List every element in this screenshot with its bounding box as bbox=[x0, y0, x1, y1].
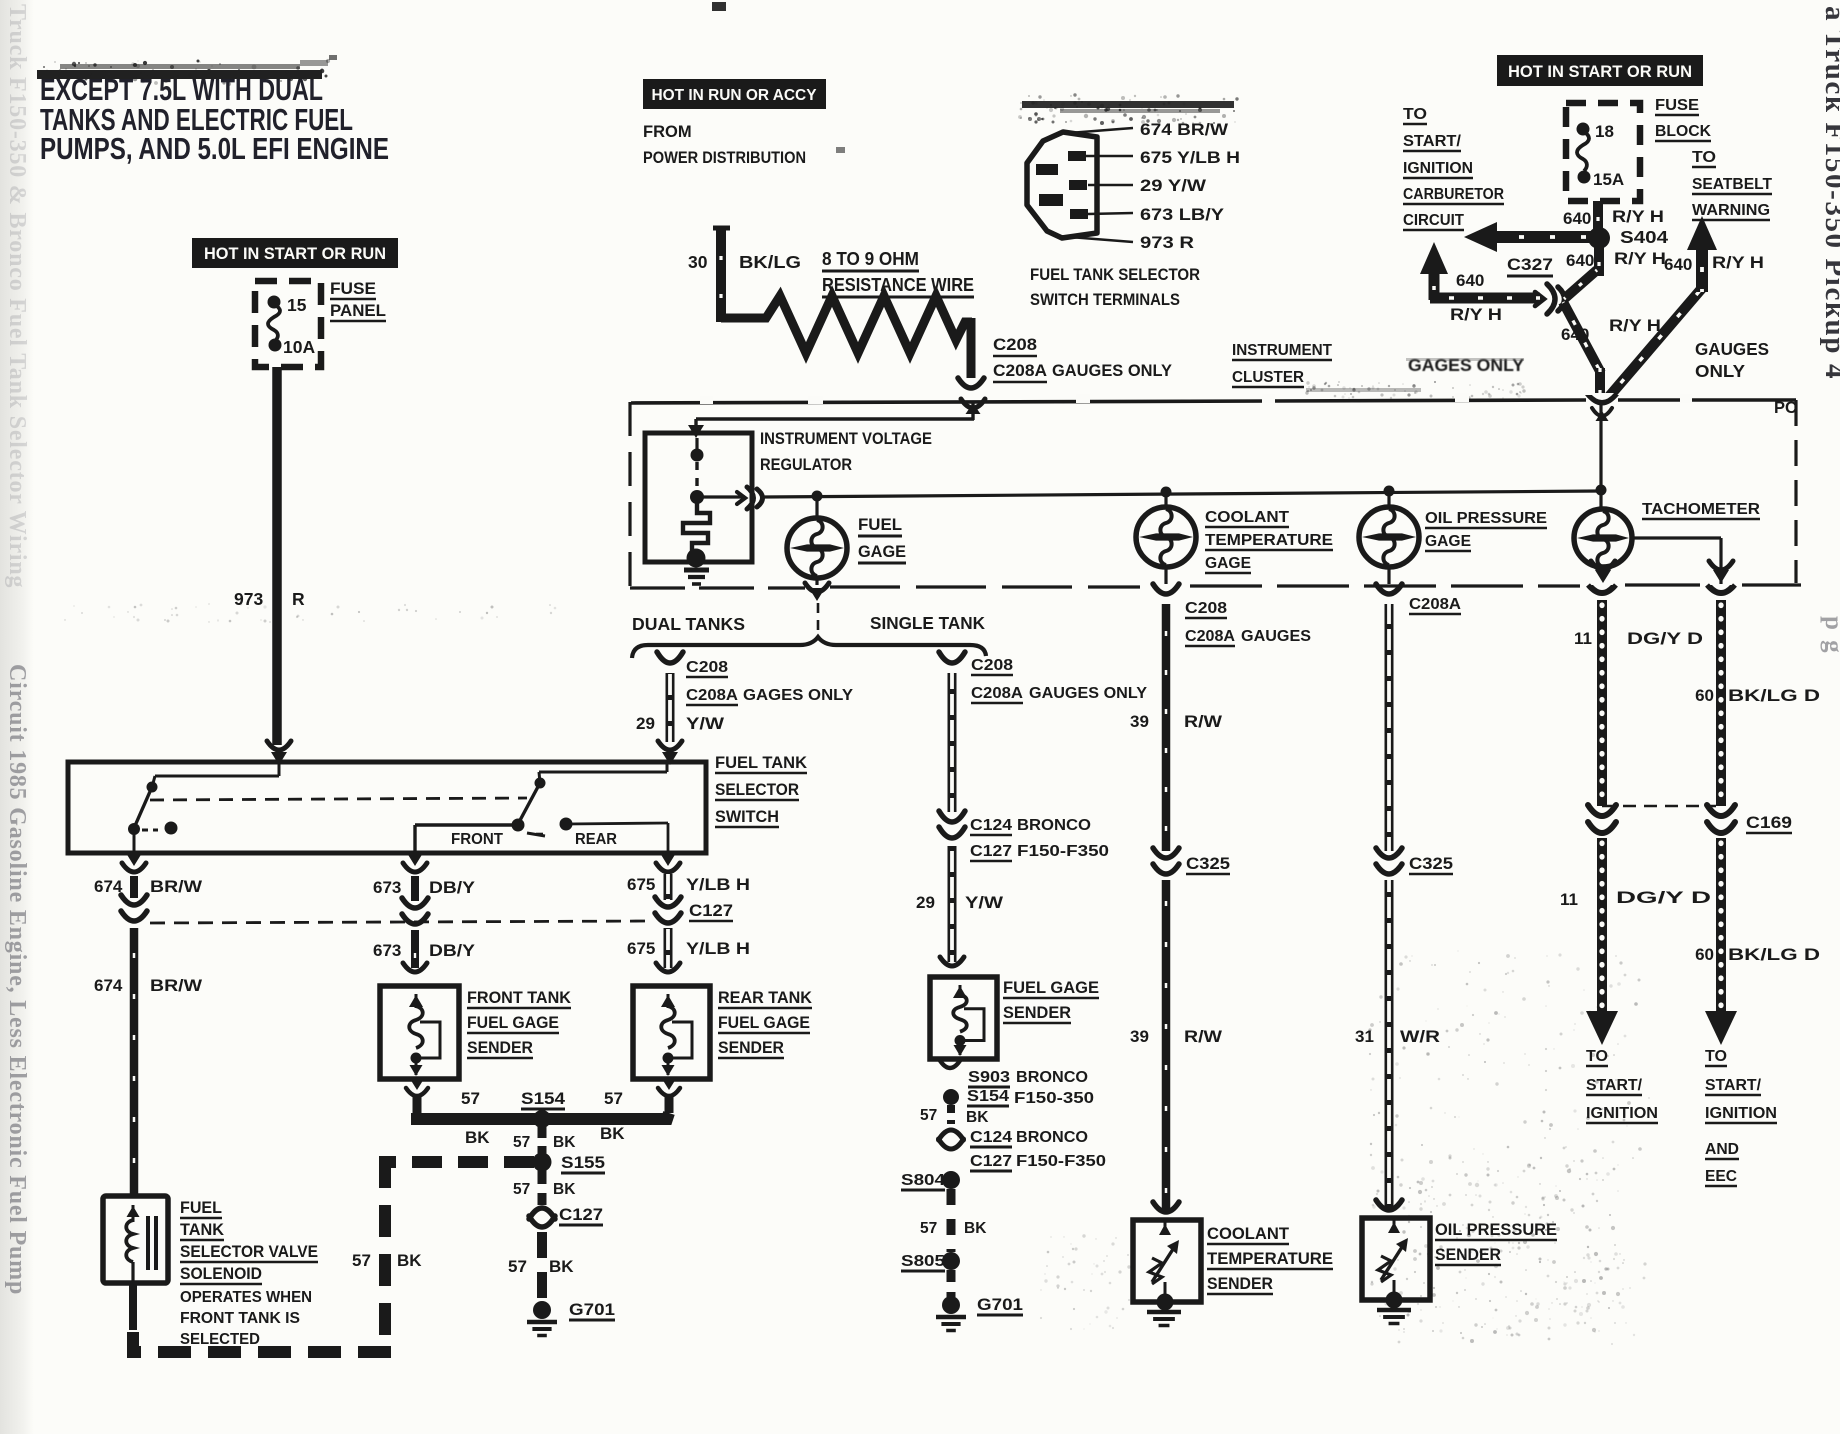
tachometer (circle symbol) bbox=[1574, 509, 1632, 567]
label SINGLE TANK bbox=[870, 613, 985, 633]
wire label 640 R/Y H (above cluster) bbox=[1561, 316, 1661, 344]
wire 11 DG/Y D upper bbox=[1597, 600, 1607, 806]
svg-text:R/W: R/W bbox=[1184, 1027, 1223, 1046]
splice S154 (single) bbox=[943, 1089, 959, 1105]
wire 29 Y/W lower (single tank) bbox=[948, 846, 957, 962]
svg-text:S404: S404 bbox=[1620, 227, 1668, 247]
arrow down from fuel gage at cluster edge bbox=[805, 583, 829, 601]
svg-text:C208A: C208A bbox=[993, 362, 1047, 380]
connector C127 chevrons on 675 column bbox=[655, 897, 681, 923]
label COOLANT TEMPERATURE GAGE bbox=[1205, 509, 1333, 573]
terminal lead line 673 LB/Y bbox=[1088, 206, 1224, 224]
svg-text:C127: C127 bbox=[970, 843, 1012, 860]
wire label 675 Y/LB H (upper) bbox=[627, 875, 750, 894]
arrow to start/ignition and EEC (60 column) bbox=[1705, 1011, 1737, 1045]
arrow left from S404 (to start/ignition carburetor circuit) bbox=[1464, 222, 1592, 252]
instrument cluster box bottom edge bbox=[630, 585, 1801, 588]
connector chevrons on 674 column bbox=[121, 895, 147, 921]
chevron C208 (single tank column) bbox=[939, 652, 965, 663]
svg-text:EEC: EEC bbox=[1705, 1168, 1737, 1185]
switch pole 2 feed wire bbox=[539, 762, 667, 772]
fuse block dashed box bbox=[1566, 103, 1640, 201]
wire label 29 Y/W lower (single) bbox=[916, 893, 1004, 912]
fuse F15/10A in fuse panel bbox=[268, 296, 282, 352]
svg-text:640: 640 bbox=[1664, 255, 1692, 274]
svg-text:R: R bbox=[292, 589, 305, 609]
label GAGES ONLY (smudged) bbox=[1406, 355, 1524, 375]
fork brace under tanks labels bbox=[632, 637, 986, 658]
svg-text:S805: S805 bbox=[901, 1253, 945, 1270]
wire label 674 BR/W (lower) bbox=[94, 976, 203, 995]
svg-text:C327: C327 bbox=[1507, 255, 1553, 274]
svg-text:15A: 15A bbox=[1593, 170, 1624, 189]
coolant sender ground bbox=[1147, 1312, 1181, 1326]
switch pole 1 pivot bbox=[147, 776, 158, 793]
svg-text:SOLENOID: SOLENOID bbox=[180, 1265, 262, 1283]
svg-text:57: 57 bbox=[604, 1089, 623, 1108]
dashed link between dotted columns bbox=[1602, 805, 1716, 808]
svg-text:57: 57 bbox=[508, 1257, 527, 1276]
svg-text:SELECTOR: SELECTOR bbox=[715, 781, 799, 799]
oil pressure gage (circle symbol) bbox=[1359, 507, 1419, 567]
right margin rotated caption text bbox=[1819, 6, 1840, 655]
svg-text:674 BR/W: 674 BR/W bbox=[1140, 121, 1228, 139]
svg-text:SENDER: SENDER bbox=[718, 1039, 784, 1057]
svg-text:S804: S804 bbox=[901, 1172, 945, 1189]
wire label 30 BK/LG bbox=[688, 252, 801, 272]
wire label 31 W/R bbox=[1355, 1027, 1440, 1046]
label INSTRUMENT VOLTAGE REGULATOR bbox=[760, 430, 932, 474]
svg-text:IGNITION: IGNITION bbox=[1705, 1105, 1777, 1122]
svg-text:FUEL GAGE: FUEL GAGE bbox=[467, 1014, 559, 1032]
svg-text:OIL PRESSURE: OIL PRESSURE bbox=[1425, 510, 1547, 527]
wire label 640 / R/Y H (left arrow) bbox=[1450, 271, 1502, 324]
fuse pin label 18 bbox=[1595, 122, 1614, 141]
switch output arrow 674 bbox=[122, 853, 146, 872]
chevron below cluster at oil column bbox=[1376, 584, 1402, 594]
switch pole 1 feed wire bbox=[155, 762, 279, 776]
label C124 BRONCO / C127 F150-F350 bbox=[970, 817, 1109, 861]
svg-text:BK: BK bbox=[553, 1134, 576, 1151]
wire label 57 BK (S155-C127) bbox=[513, 1181, 576, 1198]
fuel tank selector switch box bbox=[68, 762, 706, 853]
fuse pin label 15A bbox=[1593, 170, 1624, 189]
front tank fuel gage sender bbox=[380, 986, 459, 1079]
label COOLANT TEMPERATURE SENDER bbox=[1207, 1225, 1333, 1294]
svg-text:SEATBELT: SEATBELT bbox=[1692, 176, 1773, 193]
header box HOT IN START OR RUN (left) bbox=[192, 238, 398, 268]
svg-text:BK: BK bbox=[549, 1257, 574, 1276]
label C208 / C208A GAUGES ONLY (single) bbox=[971, 657, 1147, 703]
label TO START/IGNITION AND EEC bbox=[1705, 1048, 1777, 1186]
svg-text:HOT IN RUN OR ACCY: HOT IN RUN OR ACCY bbox=[652, 87, 817, 104]
svg-text:39: 39 bbox=[1130, 1027, 1149, 1046]
wire label 11 DG/Y D (lower) bbox=[1560, 888, 1711, 909]
wire label 11 DG/Y D (upper) bbox=[1574, 629, 1703, 648]
wire label 57 BK (below S154 single) bbox=[920, 1107, 989, 1126]
switch pole 1 blade bbox=[134, 787, 152, 828]
svg-text:57: 57 bbox=[461, 1089, 480, 1108]
svg-text:PC: PC bbox=[1774, 399, 1797, 417]
resistor: 8-9 ohm resistance wire zigzag bbox=[721, 296, 972, 378]
label C208 / C208A GAUGES (coolant column) bbox=[1185, 600, 1311, 646]
wire label 640 R/Y H (right arrow) bbox=[1664, 253, 1764, 274]
arrow into front tank sender bbox=[403, 963, 427, 972]
connector C325 (coolant) bbox=[1153, 848, 1179, 874]
svg-text:31: 31 bbox=[1355, 1027, 1374, 1046]
wire label 60 BK/LG D (upper) bbox=[1695, 686, 1820, 705]
svg-text:OIL PRESSURE: OIL PRESSURE bbox=[1435, 1221, 1557, 1239]
label FUSE PANEL bbox=[330, 279, 386, 321]
splice S804 bbox=[942, 1171, 960, 1189]
svg-text:30: 30 bbox=[688, 252, 708, 272]
connector chevrons on 11 column bbox=[1588, 805, 1616, 833]
splice S154 (dual) bbox=[533, 1110, 551, 1128]
svg-text:674: 674 bbox=[94, 877, 123, 896]
wire 11 DG/Y D lower bbox=[1597, 838, 1607, 1012]
svg-text:REAR TANK: REAR TANK bbox=[718, 989, 812, 1007]
gauge feed bus wire bbox=[697, 491, 1601, 497]
label G701 (dual) bbox=[569, 1300, 615, 1320]
wire 57 BK S154 to S155 bbox=[538, 1126, 547, 1155]
svg-text:BK: BK bbox=[397, 1251, 422, 1270]
svg-text:C208A: C208A bbox=[971, 685, 1023, 702]
ground G701 (single) bbox=[936, 1296, 966, 1331]
svg-text:BR/W: BR/W bbox=[150, 976, 203, 995]
connector C325 (oil) bbox=[1376, 848, 1402, 874]
label REAR bbox=[575, 831, 617, 848]
label TO START/IGNITION CARBURETOR CIRCUIT bbox=[1403, 106, 1504, 230]
wire 57 BK S155 to C127 bbox=[538, 1170, 547, 1205]
svg-text:673: 673 bbox=[373, 878, 401, 897]
svg-text:C208A: C208A bbox=[1185, 628, 1235, 645]
svg-text:ONLY: ONLY bbox=[1695, 361, 1745, 381]
wire label 29 Y/W (dual) bbox=[636, 714, 725, 733]
fuse pin label 10A bbox=[283, 337, 315, 357]
svg-text:Y/W: Y/W bbox=[965, 893, 1004, 912]
wire 673 stub bbox=[411, 876, 419, 901]
svg-text:675: 675 bbox=[627, 875, 655, 894]
wire label 57 BK (above G701) bbox=[508, 1257, 574, 1276]
header box HOT IN RUN OR ACCY bbox=[643, 79, 826, 109]
svg-text:C208: C208 bbox=[1185, 600, 1227, 617]
wire label 39 R/W (upper) bbox=[1130, 712, 1223, 731]
svg-text:Circuit 1985 Gasoline Engine,: Circuit 1985 Gasoline Engine, Less Elect… bbox=[4, 664, 30, 1295]
wire 57 BK S805 to G701 bbox=[947, 1270, 956, 1297]
svg-text:GAGES ONLY: GAGES ONLY bbox=[743, 687, 853, 704]
connector at IVR output bbox=[737, 487, 763, 509]
label S154 F150-350 bbox=[967, 1088, 1094, 1107]
svg-text:TO: TO bbox=[1692, 149, 1716, 166]
svg-text:10A: 10A bbox=[283, 337, 315, 357]
label TO SEATBELT WARNING bbox=[1692, 149, 1773, 220]
svg-text:REGULATOR: REGULATOR bbox=[760, 456, 852, 474]
svg-text:Y/LB H: Y/LB H bbox=[686, 939, 750, 958]
arrow up 640 R/Y H (to seatbelt warning) bbox=[1687, 216, 1717, 292]
wire label 640 R/Y H (below fuse block) bbox=[1563, 207, 1664, 228]
svg-text:SINGLE TANK: SINGLE TANK bbox=[870, 613, 985, 633]
label FUSE BLOCK bbox=[1655, 97, 1711, 141]
svg-text:BK: BK bbox=[966, 1109, 989, 1126]
tachometer feed wire bbox=[1599, 400, 1602, 509]
svg-text:S155: S155 bbox=[561, 1153, 605, 1172]
wire label 640 R/Y H (below S404) bbox=[1566, 249, 1666, 270]
switch pole 1 rear contact (open) bbox=[142, 822, 178, 835]
svg-text:INSTRUMENT: INSTRUMENT bbox=[1232, 342, 1333, 359]
wire 673 DB/Y to front sender bbox=[411, 930, 419, 968]
wire 640 C327 down to cluster junction bbox=[1563, 302, 1601, 396]
svg-text:GAUGES: GAUGES bbox=[1695, 339, 1769, 359]
svg-text:BRONCO: BRONCO bbox=[1016, 1129, 1088, 1146]
svg-text:a Truck F150-350 Pickup 4: a Truck F150-350 Pickup 4 bbox=[1819, 6, 1840, 380]
label G701 (single) bbox=[977, 1296, 1023, 1315]
fuel gage wire from bus bbox=[815, 497, 818, 519]
coolant gage output wire bbox=[1164, 567, 1167, 584]
connector C169 chevrons bbox=[1707, 805, 1735, 833]
svg-text:TACHOMETER: TACHOMETER bbox=[1642, 501, 1760, 518]
svg-text:57: 57 bbox=[513, 1134, 530, 1151]
wire label 57 BK (solenoid loop) bbox=[352, 1251, 422, 1270]
svg-text:640: 640 bbox=[1561, 325, 1589, 344]
svg-text:C208A: C208A bbox=[686, 687, 738, 704]
scan noise: streak above connector drawing bbox=[1018, 93, 1239, 125]
svg-text:FUEL GAGE: FUEL GAGE bbox=[1003, 979, 1099, 997]
svg-text:FRONT TANK: FRONT TANK bbox=[467, 989, 571, 1007]
svg-text:973: 973 bbox=[234, 589, 263, 609]
svg-text:673 LB/Y: 673 LB/Y bbox=[1140, 206, 1224, 224]
svg-text:F150-F350: F150-F350 bbox=[1016, 1153, 1106, 1170]
rear tank fuel gage sender bbox=[633, 986, 710, 1079]
inner wire resistance feed to voltage regulator bbox=[696, 403, 974, 420]
svg-text:R/Y H: R/Y H bbox=[1614, 249, 1666, 268]
svg-text:FUEL GAGE: FUEL GAGE bbox=[718, 1014, 810, 1032]
solenoid bottom wire bbox=[129, 1283, 137, 1330]
connector drawing: fuel tank selector switch terminals bbox=[1027, 132, 1097, 238]
wire 57 BK S804 to S805 bbox=[947, 1189, 956, 1252]
label FROM POWER DISTRIBUTION bbox=[643, 123, 806, 167]
svg-text:FRONT TANK IS: FRONT TANK IS bbox=[180, 1310, 300, 1327]
arrow into selector switch (dual column) bbox=[658, 741, 682, 765]
svg-text:REAR: REAR bbox=[575, 831, 617, 848]
label FRONT bbox=[451, 831, 504, 848]
svg-text:DG/Y D: DG/Y D bbox=[1627, 629, 1703, 648]
svg-text:C169: C169 bbox=[1746, 814, 1792, 832]
svg-text:29 Y/W: 29 Y/W bbox=[1140, 177, 1207, 195]
svg-text:BK: BK bbox=[964, 1220, 987, 1237]
arrow down at cluster edge (tach to C169 column) bbox=[1709, 561, 1733, 583]
ground G701 (dual) bbox=[527, 1301, 557, 1336]
arrow into coolant sender bbox=[1153, 1202, 1179, 1212]
label C127 F150-F350 (ground) bbox=[970, 1153, 1106, 1171]
svg-text:57: 57 bbox=[513, 1181, 530, 1198]
connector C124/C127 (single tank) bbox=[939, 811, 965, 838]
svg-text:C127: C127 bbox=[689, 902, 733, 920]
fuel gage sender (single tank) bbox=[930, 977, 997, 1059]
tachometer bottom wire bbox=[1601, 565, 1604, 578]
switch mechanical link dashed bbox=[150, 798, 527, 800]
svg-text:DG/Y D: DG/Y D bbox=[1616, 888, 1711, 907]
IVR ground bbox=[684, 570, 709, 584]
svg-text:673: 673 bbox=[373, 941, 401, 960]
svg-text:R/Y H: R/Y H bbox=[1450, 305, 1502, 324]
svg-text:SENDER: SENDER bbox=[1435, 1246, 1501, 1264]
instrument cluster box top edge bbox=[631, 393, 1796, 404]
arrow up 640 R/Y H (to start/ignition left) bbox=[1420, 242, 1540, 300]
svg-text:AND: AND bbox=[1705, 1141, 1739, 1158]
label FUEL TANK SELECTOR SWITCH TERMINALS bbox=[1030, 266, 1200, 309]
svg-text:57: 57 bbox=[352, 1251, 371, 1270]
scan noise: streak near GAGES ONLY bbox=[1305, 381, 1525, 400]
bus junction dot at tachometer bbox=[1596, 485, 1607, 496]
svg-text:C208A: C208A bbox=[1409, 596, 1461, 613]
IVR internal wire and contacts bbox=[690, 438, 704, 504]
svg-text:HOT IN START OR RUN: HOT IN START OR RUN bbox=[1508, 63, 1692, 81]
rear sender output arrow bbox=[658, 1078, 680, 1096]
svg-text:FUEL: FUEL bbox=[858, 515, 902, 534]
svg-text:GAUGES: GAUGES bbox=[1241, 628, 1311, 645]
label C127 (675 column) bbox=[689, 902, 733, 921]
svg-text:GAGE: GAGE bbox=[1205, 555, 1251, 572]
svg-text:PANEL: PANEL bbox=[330, 301, 386, 320]
wire 640 diagonal up-right to seatbelt warning bbox=[1607, 287, 1703, 399]
svg-text:SENDER: SENDER bbox=[1207, 1275, 1273, 1293]
svg-text:C208: C208 bbox=[686, 659, 728, 676]
title text EXCEPT 7.5L... bbox=[40, 72, 389, 166]
label C327 bbox=[1507, 255, 1553, 276]
scan tick top edge 1 bbox=[712, 2, 726, 11]
switch pole 2 blade tip gap bbox=[527, 833, 547, 836]
wire 640 R/Y H below S404 bbox=[1594, 246, 1604, 276]
switch output arrow 673 bbox=[403, 853, 427, 872]
chevron C208 (dual tanks column) bbox=[657, 652, 683, 663]
junction cup into instrument cluster (640 feed) bbox=[1585, 393, 1619, 421]
svg-text:CLUSTER: CLUSTER bbox=[1232, 369, 1304, 386]
connector C124/C127 (single ground) bbox=[939, 1130, 964, 1149]
svg-text:C124: C124 bbox=[970, 817, 1012, 834]
solenoid internals bbox=[126, 1205, 156, 1285]
svg-text:PUMPS, AND 5.0L EFI ENGINE: PUMPS, AND 5.0L EFI ENGINE bbox=[40, 131, 389, 166]
svg-text:SENDER: SENDER bbox=[1003, 1004, 1071, 1022]
label TACHOMETER bbox=[1642, 501, 1760, 519]
svg-text:S154: S154 bbox=[967, 1088, 1009, 1105]
terminal lead line 973 R bbox=[1057, 234, 1194, 252]
wire label 57 BK (S154-S155) bbox=[513, 1134, 576, 1151]
wire label 674 BR/W (upper) bbox=[94, 877, 203, 896]
instrument cluster box right edge bbox=[1794, 400, 1797, 583]
svg-text:R/Y H: R/Y H bbox=[1612, 207, 1664, 226]
terminal lead line 29 Y/W bbox=[1088, 177, 1207, 195]
label C169 bbox=[1746, 814, 1792, 833]
svg-text:60: 60 bbox=[1695, 945, 1714, 964]
label INSTRUMENT CLUSTER bbox=[1232, 342, 1333, 387]
wire 973 R from fuse panel to selector switch bbox=[272, 367, 282, 745]
wire 39 R/W lower (coolant) bbox=[1162, 880, 1171, 1212]
splice S404 bbox=[1588, 227, 1610, 249]
header box HOT IN START OR RUN (right) bbox=[1497, 55, 1703, 86]
arrow into rear tank sender bbox=[656, 963, 680, 972]
fuel tank selector valve solenoid box bbox=[103, 1196, 168, 1283]
svg-text:BK/LG D: BK/LG D bbox=[1728, 945, 1820, 964]
arrow up into cluster from resistance wire bbox=[961, 399, 985, 414]
svg-text:R/W: R/W bbox=[1184, 712, 1223, 731]
label OIL PRESSURE SENDER bbox=[1435, 1221, 1557, 1265]
svg-text:640: 640 bbox=[1563, 209, 1591, 228]
wire 640 diagonal S404 to C327 bbox=[1564, 270, 1597, 299]
svg-text:FUEL TANK SELECTOR: FUEL TANK SELECTOR bbox=[1030, 266, 1200, 284]
junction chevron at C208 below resistance wire bbox=[958, 378, 984, 388]
wire label 60 BK/LG D (lower) bbox=[1695, 945, 1820, 964]
svg-text:FROM: FROM bbox=[643, 123, 692, 141]
coolant temperature sender bbox=[1133, 1218, 1201, 1311]
switch pole 2 pivot bbox=[535, 772, 546, 789]
wire label 675 Y/LB H (lower) bbox=[627, 939, 750, 958]
wire 31 W/R upper (oil) bbox=[1385, 604, 1394, 851]
svg-text:973 R: 973 R bbox=[1140, 234, 1194, 252]
svg-text:640: 640 bbox=[1566, 251, 1594, 270]
instrument cluster box left edge bbox=[628, 402, 631, 598]
svg-text:TO: TO bbox=[1705, 1048, 1727, 1065]
wire 29 Y/W (dual tanks) bbox=[666, 673, 675, 742]
svg-text:DB/Y: DB/Y bbox=[429, 941, 476, 960]
switch pole 2 front contact junction bbox=[415, 819, 525, 854]
label FUEL GAGE SENDER (single) bbox=[1003, 979, 1099, 1023]
wire label 973 R bbox=[234, 589, 305, 609]
svg-text:F150-F350: F150-F350 bbox=[1017, 843, 1109, 860]
svg-text:C325: C325 bbox=[1409, 855, 1453, 873]
svg-text:SELECTED: SELECTED bbox=[180, 1331, 260, 1348]
wire 674 BR/W to solenoid bbox=[130, 928, 139, 1196]
svg-text:F150-350: F150-350 bbox=[1014, 1090, 1094, 1107]
label S903 BRONCO bbox=[968, 1069, 1088, 1087]
svg-text:BR/W: BR/W bbox=[150, 877, 203, 896]
svg-text:IGNITION: IGNITION bbox=[1403, 160, 1473, 177]
label S805 bbox=[901, 1253, 945, 1271]
wire 57 BK below S154 bbox=[947, 1105, 955, 1124]
svg-text:11: 11 bbox=[1574, 629, 1592, 648]
wire 675 stub bbox=[664, 874, 673, 900]
svg-text:SWITCH TERMINALS: SWITCH TERMINALS bbox=[1030, 291, 1180, 309]
connector chevrons on 673 column bbox=[402, 898, 428, 924]
svg-text:BK: BK bbox=[465, 1128, 490, 1147]
label TO START/IGNITION (left) bbox=[1586, 1048, 1658, 1123]
svg-text:FUEL TANK: FUEL TANK bbox=[715, 754, 807, 772]
svg-text:11: 11 bbox=[1560, 890, 1578, 909]
bus junction dot at coolant gage bbox=[1161, 487, 1172, 498]
coolant gage wire from bus bbox=[1164, 492, 1167, 508]
svg-text:BLOCK: BLOCK bbox=[1655, 123, 1711, 140]
svg-text:BK/LG D: BK/LG D bbox=[1728, 686, 1820, 705]
svg-text:START/: START/ bbox=[1403, 133, 1462, 150]
label C208 / C208A GAUGES ONLY (cluster feed) bbox=[993, 336, 1172, 382]
svg-text:POWER DISTRIBUTION: POWER DISTRIBUTION bbox=[643, 149, 806, 167]
fuse panel dashed box bbox=[255, 281, 321, 367]
svg-text:29: 29 bbox=[636, 714, 655, 733]
junction cup at cluster bottom (tach column) bbox=[1588, 585, 1616, 594]
label C208A (oil column) bbox=[1409, 596, 1461, 614]
label C325 (oil) bbox=[1409, 855, 1453, 874]
label C124 BRONCO (ground) bbox=[970, 1129, 1088, 1147]
svg-text:S903: S903 bbox=[968, 1069, 1010, 1086]
splice S155 bbox=[533, 1153, 552, 1172]
svg-text:18: 18 bbox=[1595, 122, 1614, 141]
svg-text:INSTRUMENT VOLTAGE: INSTRUMENT VOLTAGE bbox=[760, 430, 932, 448]
svg-text:DUAL TANKS: DUAL TANKS bbox=[632, 614, 745, 634]
label 8 TO 9 OHM RESISTANCE WIRE bbox=[822, 249, 974, 297]
svg-text:S154: S154 bbox=[521, 1089, 566, 1108]
svg-text:FUSE: FUSE bbox=[330, 279, 376, 298]
svg-text:674: 674 bbox=[94, 976, 123, 995]
svg-text:GAUGES ONLY: GAUGES ONLY bbox=[1029, 685, 1147, 702]
